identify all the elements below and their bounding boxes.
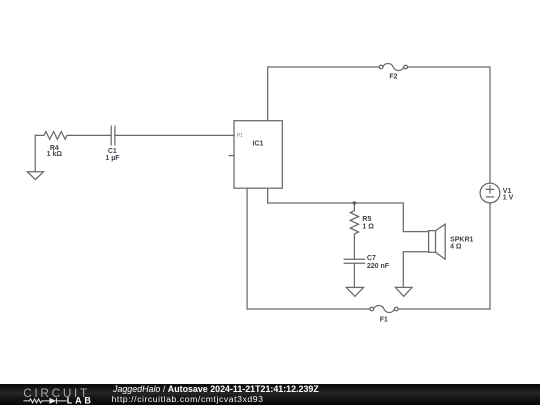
svg-text:C7: C7 [367, 255, 376, 262]
svg-text:IC1: IC1 [253, 141, 264, 148]
svg-text:1 V: 1 V [503, 194, 514, 201]
svg-text:1 µF: 1 µF [105, 155, 120, 162]
svg-text:LAB: LAB [67, 395, 94, 405]
svg-text:F2: F2 [389, 74, 397, 81]
svg-text:P1: P1 [237, 133, 243, 139]
svg-text:220 nF: 220 nF [367, 263, 390, 270]
svg-text:1 kΩ: 1 kΩ [47, 151, 63, 158]
svg-text:F1: F1 [380, 316, 388, 323]
svg-text:4 Ω: 4 Ω [450, 243, 462, 250]
svg-text:1 Ω: 1 Ω [362, 223, 374, 230]
svg-text:R5: R5 [362, 216, 371, 223]
